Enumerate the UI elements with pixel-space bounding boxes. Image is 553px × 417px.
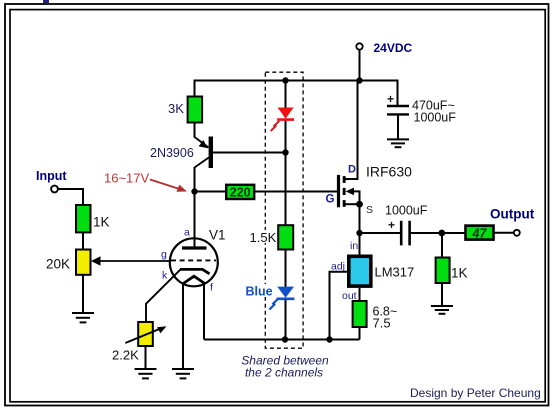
- blue mark top (cropped text descender): [43, 0, 49, 3]
- wire S down: [359, 204, 361, 254]
- LED red D1: [271, 108, 294, 132]
- svg-text:16~17V: 16~17V: [104, 171, 150, 186]
- svg-text:G: G: [326, 194, 335, 206]
- capacitor 470uF: [387, 92, 409, 139]
- wire to cap1000: [360, 232, 401, 234]
- resistor 6.8-7.5: [353, 301, 367, 327]
- svg-text:47: 47: [472, 226, 488, 240]
- label 1.5K: [248, 230, 277, 243]
- resistor 47: [466, 226, 494, 240]
- svg-text:2.2K: 2.2K: [112, 348, 139, 363]
- svg-text:220: 220: [230, 186, 251, 200]
- svg-text:g: g: [161, 249, 167, 261]
- ground tube: [172, 369, 194, 378]
- wire adj: [330, 272, 348, 340]
- wire LED mid: [285, 121, 287, 225]
- wire junction to 1K: [441, 233, 443, 258]
- wire LED string: [285, 81, 287, 108]
- pot 2.2K: [138, 322, 153, 346]
- svg-text:1000uF: 1000uF: [414, 110, 457, 124]
- pot 20K: [76, 250, 91, 275]
- wire cap to junction: [410, 232, 466, 234]
- filament legs: [182, 284, 184, 369]
- wire k to pot: [146, 269, 181, 322]
- svg-text:1K: 1K: [451, 266, 468, 281]
- wire base to LED string: [213, 152, 286, 154]
- svg-text:adj: adj: [331, 260, 345, 272]
- junction out node: [438, 230, 445, 237]
- dashed shared box: [265, 72, 303, 348]
- svg-text:f: f: [210, 282, 213, 294]
- cathode: [180, 269, 210, 273]
- resistor 220: [226, 185, 254, 199]
- wire 47 to output: [494, 232, 515, 234]
- wire 20K gnd: [82, 275, 84, 313]
- ground cap470: [387, 139, 409, 147]
- junction LED/bottom: [282, 336, 288, 342]
- arrow to node: [150, 180, 187, 192]
- svg-text:the 2 channels: the 2 channels: [245, 366, 323, 380]
- ground 20K: [72, 313, 94, 322]
- wire LED bottom: [285, 300, 287, 340]
- svg-text:20K: 20K: [46, 256, 70, 271]
- svg-text:3K: 3K: [168, 101, 184, 116]
- resistor 1.5K: [278, 225, 293, 249]
- svg-text:in: in: [350, 240, 358, 252]
- anode bar: [182, 246, 207, 249]
- junction adj/bottom: [326, 336, 332, 342]
- resistor 1K out: [436, 258, 450, 284]
- svg-text:+: +: [388, 218, 395, 232]
- regulator LM317: [349, 256, 371, 286]
- svg-text:D: D: [348, 164, 356, 176]
- svg-text:24VDC: 24VDC: [374, 41, 413, 55]
- svg-text:LM317: LM317: [375, 265, 415, 280]
- anode wire: [194, 192, 196, 247]
- resistor R 3K: [188, 97, 203, 123]
- pot arrow: [125, 326, 166, 343]
- resistor 1K in: [76, 205, 91, 232]
- wire 6.8 down: [359, 327, 361, 340]
- input terminal: [51, 186, 58, 193]
- wire input: [58, 189, 83, 205]
- wire 1K to gnd: [441, 283, 443, 306]
- wire top rail: [195, 81, 398, 107]
- wire node to gate: [195, 191, 227, 193]
- transistor Q1 2N3906: [195, 123, 214, 192]
- label Blue: [244, 284, 274, 297]
- svg-text:a: a: [184, 227, 190, 239]
- output terminal: [514, 230, 520, 236]
- svg-text:V1: V1: [209, 228, 226, 243]
- ground pot: [135, 369, 157, 378]
- wire out: [359, 288, 361, 301]
- svg-text:+: +: [387, 92, 394, 106]
- svg-text:2N3906: 2N3906: [150, 146, 194, 160]
- junction base/LED: [282, 149, 288, 155]
- MOSFET U IRF630: [337, 81, 363, 208]
- bottom wire: [204, 339, 360, 341]
- wiper arrow: [91, 256, 171, 266]
- junction rail/24V: [356, 77, 362, 83]
- tube V1: [170, 192, 218, 287]
- junction S/cap: [356, 230, 362, 236]
- wire to blue LED: [285, 250, 287, 288]
- svg-text:1000uF: 1000uF: [385, 204, 428, 218]
- svg-text:1K: 1K: [93, 215, 110, 230]
- ground 1K out: [431, 306, 453, 314]
- capacitor 1000uF output: [388, 218, 410, 245]
- svg-text:S: S: [366, 204, 373, 216]
- node junction 16-17V: [191, 188, 197, 194]
- grid dashes: [171, 259, 216, 261]
- svg-text:7.5: 7.5: [373, 316, 391, 331]
- svg-text:k: k: [162, 270, 168, 282]
- svg-text:Output: Output: [490, 207, 535, 222]
- svg-text:Input: Input: [36, 169, 67, 183]
- filament: [183, 276, 206, 284]
- wire 1K-20K: [82, 232, 84, 249]
- svg-text:Design by Peter Cheung: Design by Peter Cheung: [410, 386, 541, 400]
- LED blue D2: [269, 287, 294, 310]
- svg-text:Blue: Blue: [246, 285, 273, 299]
- wire pot gnd: [145, 346, 147, 369]
- junction rail/LED: [282, 77, 288, 83]
- svg-text:IRF630: IRF630: [366, 164, 412, 180]
- 24VDC terminal: [356, 43, 362, 49]
- wire 24VDC stub: [359, 50, 361, 81]
- svg-text:1.5K: 1.5K: [250, 230, 277, 245]
